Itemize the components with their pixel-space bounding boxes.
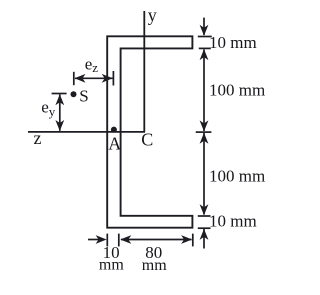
- top stub: [203, 18, 205, 35]
- arrowhead down to bottom flange inner tick: [200, 204, 209, 215]
- e_y down arrowhead: [55, 120, 64, 131]
- tick at flange inner: [199, 47, 211, 49]
- 80mm shaft: [121, 239, 192, 241]
- y axis: [143, 11, 145, 132]
- arrowhead up from center tick: [200, 133, 209, 144]
- tick at bottom flange outer: [198, 227, 211, 229]
- shear center S dot: [71, 91, 77, 97]
- svg-text:C: C: [141, 129, 153, 149]
- svg-text:y: y: [148, 5, 157, 25]
- tick at web outer: [106, 234, 108, 247]
- right dimension column lines and ticks: [196, 18, 212, 249]
- z axis: [28, 131, 145, 133]
- arrowhead down to center tick: [200, 120, 209, 131]
- e_z dimension ticks and line: [74, 71, 114, 86]
- 100mm lower shaft: [203, 133, 205, 215]
- arrowhead right to web outer tick: [96, 235, 107, 244]
- svg-text:100 mm: 100 mm: [209, 167, 265, 186]
- e_z left arrowhead: [75, 74, 86, 83]
- svg-text:S: S: [79, 87, 88, 106]
- tick at bottom flange inner: [198, 215, 211, 217]
- tick at flange right: [192, 234, 194, 247]
- bottom stub: [203, 229, 205, 249]
- arrowhead up to flange inner tick: [200, 49, 209, 60]
- arrowhead down to flange top tick: [200, 25, 209, 36]
- svg-text:mm: mm: [142, 257, 167, 274]
- e_y up arrowhead: [55, 94, 64, 105]
- arrowhead up to bottom flange outer tick: [200, 229, 209, 240]
- arrowhead right to flange right tick: [181, 235, 192, 244]
- e_z right arrowhead: [102, 74, 113, 83]
- svg-text:10 mm: 10 mm: [209, 33, 257, 52]
- left approach shaft: [88, 239, 99, 241]
- tick at flange top: [198, 36, 212, 38]
- svg-text:A: A: [108, 133, 121, 153]
- tick at web inner: [118, 234, 120, 247]
- channel section outline: [107, 36, 192, 227]
- svg-text:100 mm: 100 mm: [209, 81, 265, 100]
- e_y dimension tick and line: [52, 94, 67, 131]
- svg-text:10 mm: 10 mm: [209, 212, 257, 231]
- svg-text:z: z: [34, 128, 42, 148]
- node A dot: [111, 127, 117, 133]
- center tick: [196, 131, 212, 133]
- svg-text:mm: mm: [99, 256, 124, 273]
- 100mm upper shaft: [203, 50, 205, 132]
- arrowhead left to web inner tick: [120, 235, 131, 244]
- bottom dimension lines and ticks: [88, 234, 193, 247]
